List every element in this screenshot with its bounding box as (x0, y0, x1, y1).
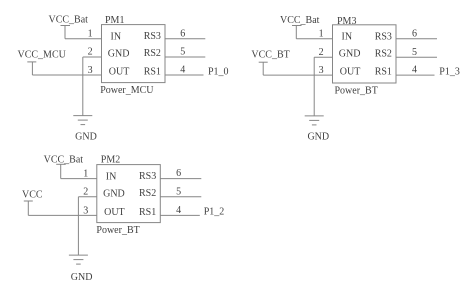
svg-text:RS1: RS1 (144, 66, 161, 77)
svg-text:Power_BT: Power_BT (335, 85, 378, 96)
svg-text:P1_0: P1_0 (208, 66, 229, 77)
svg-text:1: 1 (83, 168, 88, 179)
svg-text:5: 5 (180, 47, 185, 58)
svg-text:IN: IN (106, 171, 117, 182)
svg-text:3: 3 (319, 65, 324, 76)
svg-text:VCC_BT: VCC_BT (251, 50, 289, 61)
svg-text:Power_MCU: Power_MCU (100, 85, 154, 96)
svg-text:6: 6 (412, 28, 417, 39)
svg-text:OUT: OUT (340, 67, 361, 78)
svg-text:GND: GND (75, 132, 97, 143)
svg-text:5: 5 (176, 186, 181, 197)
svg-text:VCC: VCC (22, 190, 43, 201)
svg-text:2: 2 (88, 47, 93, 58)
svg-text:RS2: RS2 (375, 48, 392, 59)
svg-text:RS3: RS3 (144, 31, 161, 42)
svg-text:4: 4 (176, 205, 181, 216)
svg-text:2: 2 (319, 47, 324, 58)
svg-text:VCC_MCU: VCC_MCU (18, 50, 67, 61)
svg-text:OUT: OUT (104, 207, 125, 218)
svg-text:P1_2: P1_2 (204, 207, 225, 218)
svg-text:RS2: RS2 (144, 48, 161, 59)
svg-text:VCC_Bat: VCC_Bat (44, 154, 84, 165)
svg-text:6: 6 (180, 28, 185, 39)
svg-text:VCC_Bat: VCC_Bat (280, 15, 320, 26)
svg-text:2: 2 (83, 187, 88, 198)
svg-text:3: 3 (88, 65, 93, 76)
svg-text:PM3: PM3 (337, 16, 356, 27)
svg-text:GND: GND (307, 132, 329, 143)
svg-text:P1_3: P1_3 (439, 66, 460, 77)
svg-text:1: 1 (319, 29, 324, 40)
svg-text:4: 4 (180, 65, 185, 76)
svg-text:RS1: RS1 (139, 207, 156, 218)
svg-text:GND: GND (339, 49, 361, 60)
svg-text:GND: GND (103, 188, 125, 199)
svg-text:3: 3 (83, 206, 88, 217)
svg-text:IN: IN (111, 32, 122, 43)
svg-text:4: 4 (412, 65, 417, 76)
svg-text:Power_BT: Power_BT (96, 225, 139, 236)
svg-text:GND: GND (71, 272, 93, 283)
svg-text:PM1: PM1 (105, 15, 124, 26)
svg-text:OUT: OUT (109, 66, 130, 77)
svg-text:VCC_Bat: VCC_Bat (49, 15, 89, 26)
svg-text:IN: IN (342, 32, 353, 43)
svg-text:6: 6 (176, 168, 181, 179)
svg-text:GND: GND (108, 49, 130, 60)
svg-text:5: 5 (412, 47, 417, 58)
svg-text:RS2: RS2 (139, 188, 156, 199)
svg-text:RS3: RS3 (139, 171, 156, 182)
svg-text:PM2: PM2 (101, 154, 120, 165)
svg-text:RS3: RS3 (375, 31, 392, 42)
svg-text:1: 1 (88, 28, 93, 39)
svg-text:RS1: RS1 (375, 67, 392, 78)
